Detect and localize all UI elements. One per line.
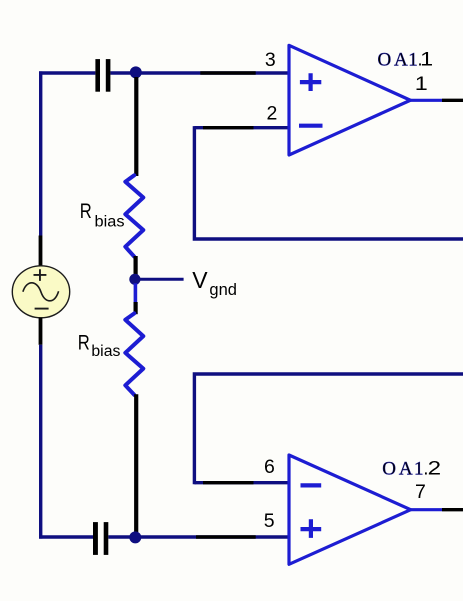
op-amp U2 minus input symbol	[301, 483, 322, 487]
svg-text:1: 1	[408, 49, 418, 70]
svg-text:V: V	[192, 267, 208, 293]
resistor R2	[125, 313, 143, 395]
resistor R1	[125, 175, 143, 256]
svg-text:A: A	[399, 458, 413, 479]
node Vgnd junction dot	[129, 274, 140, 285]
wire: bottom rail black middle segment	[196, 535, 256, 538]
wire: left vertical net to bottom rail (navy)	[39, 345, 42, 539]
wire: black segment to R2 top	[134, 302, 138, 314]
op-amp U1 OA1.1 triangle	[289, 45, 410, 155]
svg-text:bias: bias	[91, 343, 120, 360]
node: bottom junction dot	[129, 531, 141, 543]
svg-text:2: 2	[267, 102, 278, 124]
wire: top rail y=73 (navy)	[39, 71, 290, 74]
svg-text:6: 6	[264, 456, 275, 478]
AC source V1	[12, 266, 69, 318]
wire: blue stub below Vgnd dot	[134, 283, 138, 302]
svg-text:A: A	[394, 49, 408, 70]
wire: pin6 row black middle segment	[203, 481, 254, 484]
label Vgnd	[192, 267, 237, 299]
wire: OA1.2 output stub (blue)	[411, 508, 442, 511]
wire: top rail black middle segment	[200, 71, 255, 74]
wire: OA1.2 feedback pin6 row (navy)	[194, 481, 290, 484]
wire: OA1.2 feedback loop (navy)	[194, 374, 463, 484]
svg-text:1: 1	[415, 74, 428, 95]
svg-text:R: R	[78, 331, 90, 355]
label OA1.2	[382, 458, 441, 479]
wire: output 1 to edge (black)	[442, 99, 463, 102]
wire: OA1.1 feedback pin2 row (navy)	[194, 126, 290, 129]
svg-text:R: R	[80, 199, 92, 223]
svg-text:5: 5	[264, 510, 275, 532]
svg-text:bias: bias	[95, 214, 125, 231]
svg-text:gnd: gnd	[209, 281, 237, 299]
svg-text:O: O	[378, 49, 392, 70]
op-amp U1 minus input symbol	[299, 124, 323, 128]
capacitor C2 (bottom)	[93, 522, 108, 555]
op-amp U1 plus input symbol	[300, 73, 321, 91]
svg-text:1: 1	[414, 458, 424, 479]
label OA1.1	[378, 49, 434, 70]
wire: black vertical from top dot to R1	[134, 77, 138, 176]
node: top junction dot	[130, 66, 142, 78]
svg-text:7: 7	[415, 481, 426, 503]
op-amp U2 plus input symbol	[301, 519, 322, 538]
svg-text:1: 1	[420, 50, 433, 71]
op-amp U2 OA1.2 triangle	[289, 455, 411, 564]
wire: black vertical from R2 to bottom dot	[134, 394, 138, 532]
svg-text:3: 3	[265, 49, 276, 71]
wire: left vertical net from top corner to source (navy)	[39, 71, 42, 235]
wire: bottom rail y=537 (navy)	[39, 535, 290, 538]
wire: OA1.1 output stub (blue)	[410, 99, 442, 102]
wire: source top lead (black)	[39, 236, 43, 267]
wire: pin2 row black middle segment	[203, 126, 254, 129]
svg-text:O: O	[382, 458, 396, 479]
wire: output 7 to edge (black)	[442, 508, 463, 511]
wire: OA1.1 feedback loop (navy)	[194, 126, 463, 239]
wire: black segment R1 bottom to Vgnd dot	[134, 256, 138, 275]
capacitor C1 (top)	[95, 59, 110, 92]
label Rbias (top)	[80, 199, 125, 231]
wire: source bottom lead (black)	[39, 317, 43, 344]
wire: Vgnd stub right (navy)	[135, 278, 184, 281]
label Rbias (bottom)	[78, 331, 121, 361]
svg-text:2: 2	[428, 459, 442, 480]
